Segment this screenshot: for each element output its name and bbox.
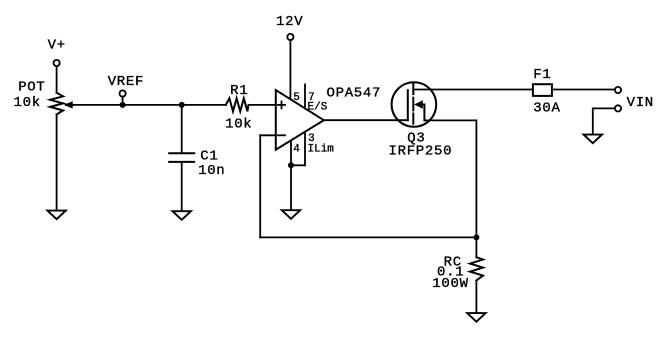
ground (op-amp) bbox=[282, 210, 300, 219]
transistor Q3 IRFP250 bbox=[389, 82, 453, 159]
svg-text:ILim: ILim bbox=[308, 143, 335, 155]
svg-text:10n: 10n bbox=[198, 163, 225, 179]
svg-text:30A: 30A bbox=[533, 101, 560, 117]
svg-text:100W: 100W bbox=[432, 276, 468, 292]
wire RC to ground bbox=[475, 281, 477, 314]
svg-text:E/S: E/S bbox=[308, 101, 328, 113]
wire V+ to POT bbox=[56, 67, 58, 93]
node VREF terminal bbox=[108, 74, 144, 108]
svg-text:OPA547: OPA547 bbox=[327, 86, 382, 102]
node V+ terminal bbox=[48, 38, 66, 67]
svg-text:VREF: VREF bbox=[108, 74, 144, 90]
svg-text:12V: 12V bbox=[276, 14, 303, 30]
potentiometer POT 10k bbox=[14, 80, 75, 115]
svg-text:4: 4 bbox=[293, 143, 300, 155]
svg-text:IRFP250: IRFP250 bbox=[389, 143, 453, 159]
node 12V supply terminal bbox=[276, 14, 303, 40]
op-amp U1 OPA547 bbox=[276, 86, 381, 150]
wire 12V to op-amp pin 5 bbox=[289, 40, 291, 99]
ground (RC) bbox=[467, 313, 485, 322]
wire op-amp pin 4 to ground bbox=[291, 141, 300, 210]
svg-text:10k: 10k bbox=[14, 95, 41, 111]
pin 3 stub ILim bbox=[291, 132, 334, 165]
node VIN- terminal bbox=[615, 95, 654, 112]
svg-text:5: 5 bbox=[293, 92, 300, 104]
wire feedback vertical bbox=[259, 135, 261, 237]
wire MOSFET drain to fuse bbox=[413, 89, 533, 91]
pin 7 stub E/S bbox=[305, 84, 328, 113]
wire fuse to VIN+ bbox=[552, 89, 615, 91]
wire MOSFET source bbox=[424, 119, 476, 121]
ground (POT) bbox=[47, 211, 65, 220]
ground (C1) bbox=[173, 211, 191, 220]
wire wiper bus to R1 bbox=[73, 104, 226, 106]
wire POT bottom to ground bbox=[56, 114, 58, 210]
ground (VIN) bbox=[584, 135, 602, 144]
wire VIN- to ground bbox=[593, 108, 615, 134]
node VIN+ terminal bbox=[615, 87, 621, 93]
wire op-amp output to MOSFET gate bbox=[324, 119, 408, 121]
svg-text:V+: V+ bbox=[48, 38, 66, 54]
resistor R1 10k bbox=[225, 83, 252, 132]
fuse F1 30A bbox=[533, 67, 561, 116]
wire C1 to ground bbox=[181, 162, 183, 211]
wire feedback horizontal bbox=[260, 236, 476, 238]
node junction pin4/pin3 bbox=[288, 162, 294, 168]
svg-text:R1: R1 bbox=[230, 83, 248, 99]
node junction feedback/RC bbox=[473, 234, 479, 240]
wire bus to C1 bbox=[181, 105, 183, 153]
resistor RC 0.1 100W bbox=[432, 254, 483, 292]
node junction C1/bus bbox=[179, 102, 185, 108]
wire source down to RC bbox=[475, 120, 477, 257]
svg-text:10k: 10k bbox=[225, 116, 252, 132]
svg-text:F1: F1 bbox=[533, 67, 551, 83]
svg-text:POT: POT bbox=[18, 80, 45, 96]
capacitor C1 10n bbox=[169, 149, 225, 179]
svg-text:VIN: VIN bbox=[627, 95, 654, 111]
wire R1 to op-amp + input bbox=[249, 104, 276, 106]
wire feedback to op-amp - input bbox=[260, 134, 276, 136]
